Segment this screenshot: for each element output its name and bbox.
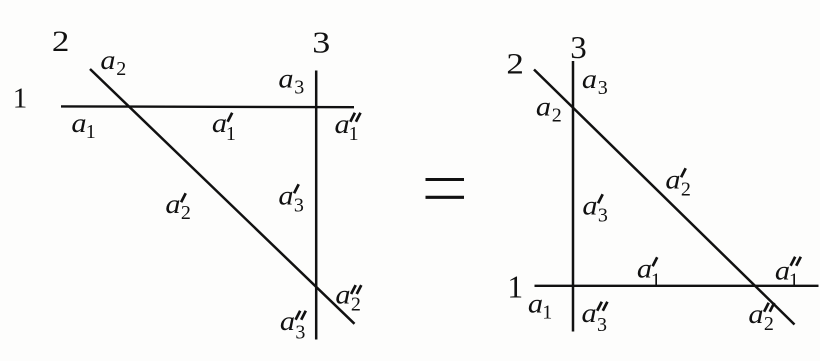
- svg-text:a: a: [280, 307, 295, 337]
- svg-text:2: 2: [681, 179, 691, 201]
- svg-text:2: 2: [506, 47, 524, 80]
- left diagram: line 2 (diagonal): [90, 69, 355, 324]
- svg-text:3: 3: [598, 77, 608, 99]
- svg-text:3: 3: [597, 314, 607, 336]
- right label a_3: [582, 65, 608, 99]
- svg-text:3: 3: [570, 29, 587, 65]
- svg-text:a: a: [536, 92, 551, 122]
- left diagram: line 3 (vertical): [315, 71, 318, 340]
- svg-text:3: 3: [294, 77, 304, 99]
- svg-text:a: a: [775, 256, 790, 286]
- svg-text:1: 1: [349, 123, 359, 145]
- left label a'_2: [165, 190, 191, 224]
- svg-text:1: 1: [542, 302, 552, 324]
- left label a_3: [278, 64, 304, 98]
- right diagram: line 1 (horizontal): [535, 285, 819, 287]
- right label a'_2: [665, 165, 691, 200]
- svg-text:a: a: [100, 46, 115, 76]
- svg-text:a: a: [278, 64, 293, 94]
- svg-text:a: a: [278, 181, 293, 211]
- left diagram: line 1 (horizontal): [61, 105, 354, 108]
- svg-text:2: 2: [552, 105, 562, 127]
- right label a'_3: [582, 191, 608, 226]
- svg-text:3: 3: [312, 25, 330, 60]
- right label a''_3: [581, 299, 607, 336]
- left label a_1: [71, 109, 95, 143]
- svg-text:1: 1: [789, 270, 799, 292]
- left label a'_1: [212, 109, 236, 145]
- right label a''_1: [775, 256, 801, 291]
- svg-text:a: a: [335, 110, 350, 140]
- left label a_2: [100, 46, 126, 80]
- svg-text:a: a: [528, 289, 543, 319]
- svg-text:3: 3: [598, 205, 608, 227]
- svg-text:a: a: [748, 300, 763, 330]
- svg-text:a: a: [582, 65, 597, 95]
- right label a_1: [528, 289, 552, 323]
- svg-text:1: 1: [651, 270, 661, 292]
- svg-text:a: a: [165, 190, 180, 220]
- svg-text:1: 1: [507, 270, 523, 305]
- left label a''_2: [335, 280, 361, 315]
- right label a_2: [536, 92, 562, 126]
- svg-text:a: a: [665, 165, 680, 195]
- svg-text:1: 1: [86, 121, 96, 143]
- svg-text:3: 3: [294, 195, 304, 217]
- svg-text:2: 2: [764, 313, 774, 335]
- left label a''_1: [335, 110, 361, 145]
- right diagram: line 2 (diagonal): [534, 70, 795, 325]
- svg-text:2: 2: [116, 58, 126, 80]
- svg-text:a: a: [71, 109, 86, 139]
- svg-text:1: 1: [226, 123, 236, 145]
- left label a'_3: [278, 181, 304, 216]
- left label a''_3: [280, 307, 306, 344]
- right label a''_2: [748, 300, 774, 335]
- svg-text:a: a: [212, 109, 227, 139]
- svg-text:a: a: [335, 280, 350, 310]
- svg-text:a: a: [581, 299, 596, 329]
- svg-text:1: 1: [13, 82, 28, 114]
- svg-text:a: a: [637, 254, 652, 284]
- svg-text:2: 2: [181, 202, 191, 224]
- svg-text:2: 2: [52, 25, 70, 58]
- right diagram: line 3 (vertical): [572, 61, 575, 332]
- svg-text:3: 3: [295, 322, 305, 344]
- svg-text:2: 2: [351, 294, 361, 316]
- equals sign: [426, 180, 465, 198]
- right label a'_1: [637, 254, 661, 291]
- svg-text:a: a: [582, 191, 597, 221]
